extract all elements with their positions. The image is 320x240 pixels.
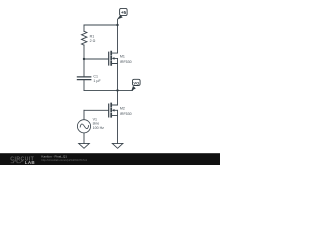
- wire V1 bottom lead: [83, 133, 85, 144]
- capacitor C1: [77, 77, 90, 80]
- transistor M2: [109, 90, 118, 143]
- svg-text:100 Hz: 100 Hz: [93, 126, 105, 130]
- transistor M1: [109, 25, 118, 90]
- node flag +5: [117, 8, 127, 19]
- wire top rail from R1 top to +5 junction: [84, 24, 118, 26]
- M1 body arrow: [112, 57, 115, 60]
- node flag VO: [131, 79, 140, 91]
- wire C1 bottom lead: [83, 80, 85, 91]
- svg-text:IRF530: IRF530: [120, 60, 132, 64]
- ground under V1: [79, 143, 90, 148]
- node junction gate of M1: [83, 58, 85, 60]
- svg-text:1 µF: 1 µF: [93, 79, 101, 83]
- svg-text:http://circuitlab.com/c/p2%26%: http://circuitlab.com/c/p2%26%37b7s3: [41, 158, 87, 162]
- svg-text:M2: M2: [120, 107, 125, 111]
- svg-text:+5: +5: [121, 10, 127, 15]
- svg-text:LAB: LAB: [25, 160, 36, 165]
- svg-text:IRF530: IRF530: [120, 112, 132, 116]
- svg-text:R1: R1: [90, 35, 95, 39]
- wire R1 bottom to gate node: [83, 45, 85, 59]
- ground under M2: [112, 143, 123, 148]
- M2 body arrow: [112, 109, 115, 112]
- wire gate node down to C1: [83, 59, 85, 77]
- wire V1 top lead: [83, 110, 85, 120]
- node junction output: [116, 89, 118, 91]
- svg-text:M1: M1: [120, 55, 125, 59]
- wire R1 top lead: [83, 25, 85, 31]
- svg-text:VO: VO: [133, 80, 139, 85]
- resistor R1: [82, 31, 87, 45]
- wire +5 tail: [118, 18, 119, 25]
- watermark footer bar: [0, 153, 220, 165]
- node junction at +5 rail: [116, 24, 118, 26]
- wire gate of M1: [84, 58, 108, 60]
- CircuitLab logo: [10, 156, 35, 165]
- voltage source V1: [77, 120, 90, 133]
- wire output node horizontal: [84, 89, 133, 91]
- svg-text:2 Ω: 2 Ω: [90, 39, 96, 43]
- wire gate of M2 from V1: [84, 109, 108, 111]
